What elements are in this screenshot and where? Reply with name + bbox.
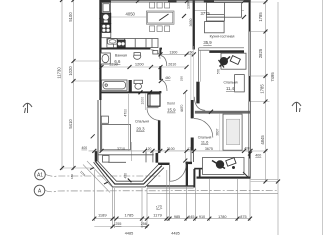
svg-text:260: 260 [188,50,194,54]
svg-text:1785: 1785 [125,213,135,218]
svg-text:А: А [38,189,42,195]
svg-text:255: 255 [115,222,121,226]
svg-text:400: 400 [255,154,261,158]
svg-text:2825: 2825 [258,48,263,58]
svg-text:1179: 1179 [153,213,162,218]
svg-text:1020: 1020 [68,66,73,76]
svg-text:3607: 3607 [215,128,219,135]
svg-text:4050: 4050 [126,11,136,16]
svg-text:15,9: 15,9 [167,108,176,113]
svg-text:Холл: Холл [167,102,175,106]
svg-text:180: 180 [70,174,74,179]
svg-text:170: 170 [155,204,162,209]
svg-text:4485: 4485 [171,232,179,236]
svg-text:1200: 1200 [135,62,145,67]
svg-text:400: 400 [81,146,87,150]
svg-text:3650: 3650 [189,19,193,27]
svg-text:11,6: 11,6 [201,139,209,144]
svg-text:Спальня: Спальня [135,120,149,124]
svg-text:450: 450 [124,173,128,179]
svg-text:4485: 4485 [125,232,133,236]
svg-text:910: 910 [199,215,205,219]
svg-text:120: 120 [187,147,193,151]
svg-text:985: 985 [174,215,180,219]
svg-text:1000: 1000 [141,97,145,105]
svg-text:2610: 2610 [168,63,176,67]
svg-text:120: 120 [146,147,152,151]
svg-text:256: 256 [141,222,147,226]
svg-text:250: 250 [179,76,183,81]
svg-text:Спальня: Спальня [223,81,237,85]
svg-text:35,9: 35,9 [203,40,212,45]
svg-text:Ванная: Ванная [115,53,127,57]
svg-text:5410: 5410 [68,119,73,129]
svg-text:400: 400 [244,147,250,151]
svg-text:1785: 1785 [260,84,265,94]
svg-text:3675: 3675 [205,147,213,151]
svg-text:875: 875 [240,215,246,219]
svg-text:4470: 4470 [180,105,184,113]
svg-text:570: 570 [216,69,220,75]
svg-text:460: 460 [165,76,171,80]
svg-text:1189: 1189 [98,213,107,218]
svg-text:3710: 3710 [117,147,125,151]
svg-text:А1: А1 [37,173,43,179]
svg-text:4845: 4845 [260,135,265,145]
svg-text:11,4: 11,4 [226,86,235,91]
svg-text:4700: 4700 [124,109,128,117]
svg-text:Кухня-гостиная: Кухня-гостиная [210,35,235,39]
svg-text:7495: 7495 [270,72,275,82]
svg-text:11730: 11730 [57,67,62,79]
svg-text:1880: 1880 [109,62,119,67]
svg-text:2100: 2100 [167,147,175,151]
svg-text:5100: 5100 [68,12,73,22]
svg-text:945: 945 [188,215,194,219]
svg-text:1780: 1780 [218,215,226,219]
svg-text:1300: 1300 [169,50,177,54]
svg-text:3775: 3775 [201,11,211,16]
svg-text:1785: 1785 [258,12,263,22]
svg-text:20,3: 20,3 [136,127,145,132]
